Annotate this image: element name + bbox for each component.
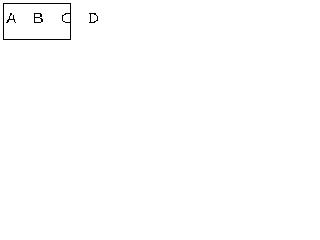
letter C: [62, 13, 70, 23]
letter D: [89, 13, 98, 23]
box: [4, 4, 71, 40]
letter A: [6, 13, 16, 23]
letter B: [34, 13, 43, 23]
background: [0, 0, 144, 43]
